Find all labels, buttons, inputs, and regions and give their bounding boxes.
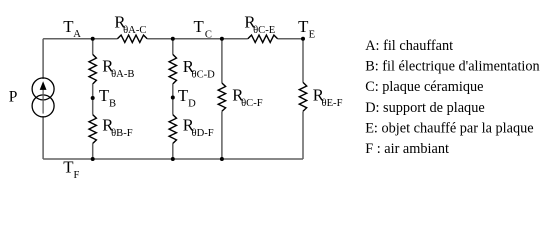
svg-text:T: T bbox=[63, 17, 73, 36]
label resistor RθB-F bbox=[102, 116, 132, 140]
wire: RθC-D to node T_D bbox=[172, 84, 174, 115]
legend line E bbox=[365, 120, 534, 136]
label node T_F bbox=[63, 157, 79, 181]
wire: RθB-F to bottom rail bbox=[92, 144, 94, 160]
label resistor RθC-F bbox=[232, 85, 262, 109]
svg-text:θE-F: θE-F bbox=[322, 98, 343, 109]
svg-text:A: fil chauffant: A: fil chauffant bbox=[365, 38, 454, 54]
wire: T_C right junction down to resistor RθC-F bbox=[221, 39, 223, 83]
svg-text:θA-C: θA-C bbox=[123, 25, 146, 36]
current source P (two overlapping circles with upward arrow) bbox=[32, 78, 54, 117]
svg-text:C: C bbox=[205, 29, 212, 40]
resistor RθE-F bbox=[299, 82, 306, 111]
node T_A junction dot on top rail bbox=[91, 37, 95, 41]
svg-text:T: T bbox=[194, 17, 204, 36]
bottom rail junction dot below RθC-F bbox=[220, 157, 224, 161]
legend line B bbox=[365, 59, 540, 75]
label resistor RθD-F bbox=[183, 116, 214, 140]
wire: T_E down to resistor RθE-F bbox=[302, 39, 304, 83]
bottom rail junction dot below T_D bbox=[171, 157, 175, 161]
label node T_C bbox=[194, 17, 212, 41]
svg-text:F : air ambiant: F : air ambiant bbox=[365, 141, 450, 157]
legend line A bbox=[365, 38, 454, 54]
resistor RθD-F bbox=[169, 115, 176, 144]
svg-text:T: T bbox=[298, 17, 308, 36]
resistor RθC-F bbox=[218, 83, 225, 111]
svg-text:A: A bbox=[73, 29, 81, 40]
node T_E junction dot on top rail bbox=[301, 37, 305, 41]
label node T_A bbox=[63, 17, 81, 40]
resistor RθA-B bbox=[89, 54, 96, 84]
label resistor RθA-B bbox=[102, 57, 134, 81]
label resistor RθC-E bbox=[244, 13, 275, 36]
svg-text:θC-E: θC-E bbox=[253, 25, 275, 36]
legend line F bbox=[365, 141, 450, 157]
svg-text:B: fil électrique d'alimentati: B: fil électrique d'alimentation bbox=[365, 59, 540, 75]
svg-text:P: P bbox=[9, 89, 18, 106]
svg-text:E: objet chauffé par la plaque: E: objet chauffé par la plaque bbox=[365, 120, 534, 136]
svg-text:F: F bbox=[74, 170, 80, 181]
svg-text:T: T bbox=[178, 86, 188, 105]
svg-text:T: T bbox=[99, 86, 109, 105]
wire: top rail left segment (T_A node wire) bbox=[43, 38, 117, 40]
wire: RθA-B to node T_B bbox=[92, 84, 94, 115]
label node T_B bbox=[99, 86, 116, 110]
wire: top rail middle segment (T_C node wire) bbox=[147, 38, 248, 40]
wire: bottom rail (T_F node wire) bbox=[43, 158, 303, 160]
svg-text:C: plaque céramique: C: plaque céramique bbox=[365, 79, 484, 95]
svg-text:θB-F: θB-F bbox=[111, 128, 133, 139]
wire: RθD-F to bottom rail bbox=[172, 144, 174, 160]
svg-text:D: support de plaque: D: support de plaque bbox=[365, 100, 485, 116]
label node T_D bbox=[178, 86, 196, 110]
wire: RθE-F to bottom rail bbox=[302, 111, 304, 159]
svg-text:T: T bbox=[63, 157, 73, 176]
node T_C right junction dot on top rail bbox=[220, 37, 224, 41]
wire: left branch above source P bbox=[42, 39, 44, 79]
node T_C left junction dot on top rail bbox=[171, 37, 175, 41]
legend line C bbox=[365, 79, 484, 95]
label P (source value) bbox=[9, 89, 18, 106]
svg-text:θC-F: θC-F bbox=[241, 98, 263, 109]
svg-text:θD-F: θD-F bbox=[192, 128, 214, 139]
label resistor RθE-F bbox=[313, 85, 343, 109]
resistor RθA-C bbox=[117, 35, 147, 42]
svg-text:B: B bbox=[109, 99, 116, 110]
wire: T_C left junction down to resistor RθC-D bbox=[172, 39, 174, 55]
wire: branch T_A down to resistor RθA-B bbox=[92, 39, 94, 55]
svg-text:θC-D: θC-D bbox=[192, 70, 216, 81]
label resistor RθA-C bbox=[114, 12, 146, 36]
wire: left branch below source P bbox=[42, 116, 44, 159]
node T_D junction dot bbox=[171, 96, 175, 100]
label node T_E bbox=[298, 17, 315, 41]
bottom rail junction dot below T_B bbox=[91, 157, 95, 161]
legend line D bbox=[365, 100, 485, 116]
resistor RθB-F bbox=[89, 115, 96, 144]
wire: RθC-F to bottom rail bbox=[221, 111, 223, 159]
resistor RθC-E bbox=[248, 35, 278, 42]
label resistor RθC-D bbox=[183, 57, 215, 81]
svg-text:D: D bbox=[188, 99, 196, 110]
wire: top rail right segment (T_E node wire) bbox=[278, 38, 303, 40]
node T_B junction dot bbox=[91, 96, 95, 100]
resistor RθC-D bbox=[169, 54, 176, 84]
svg-text:θA-B: θA-B bbox=[111, 69, 134, 80]
svg-text:E: E bbox=[309, 29, 315, 40]
